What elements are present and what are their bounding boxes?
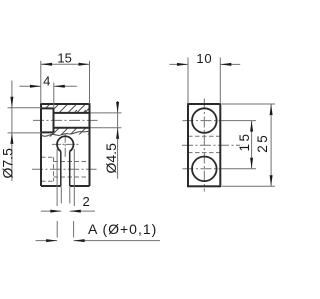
svg-text:15: 15 (57, 51, 71, 66)
svg-text:Ø7.5: Ø7.5 (0, 148, 15, 179)
svg-text:25: 25 (255, 133, 270, 153)
svg-text:Ø4.5: Ø4.5 (103, 143, 119, 174)
svg-text:A (Ø+0,1): A (Ø+0,1) (88, 221, 157, 237)
svg-text:10: 10 (196, 51, 212, 66)
svg-text:2: 2 (82, 194, 89, 209)
svg-text:4: 4 (43, 73, 50, 88)
svg-text:15: 15 (237, 131, 252, 151)
